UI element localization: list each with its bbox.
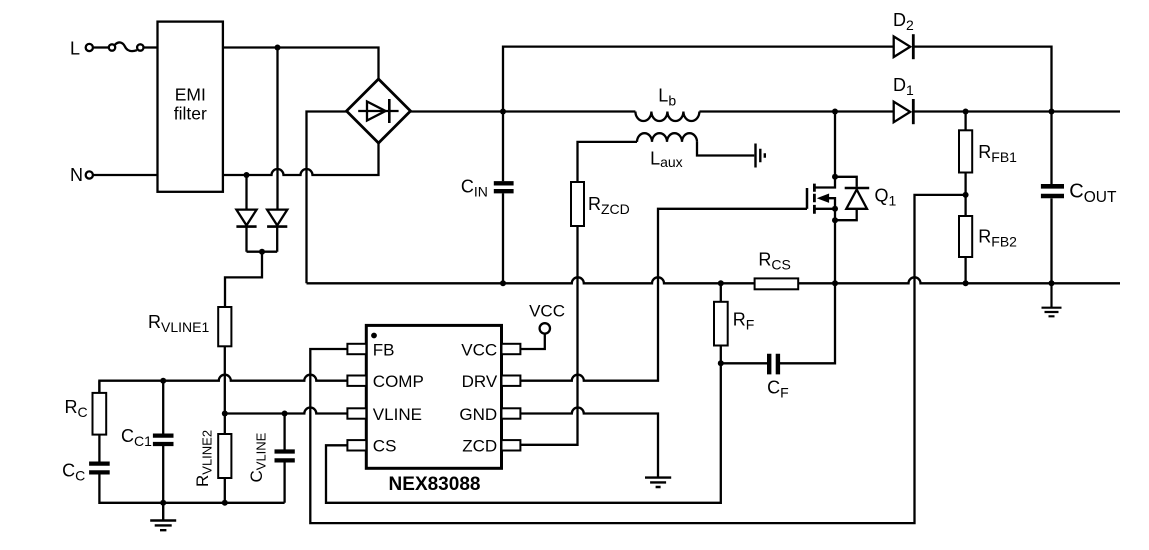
svg-text:L: L [70,39,80,59]
wire CVLINE leads [283,414,285,503]
wire clamp diode cathodes join [247,227,278,252]
diode D2 [894,34,914,59]
svg-text:N: N [70,165,83,185]
node COUT bottom on bus [1049,280,1055,286]
wire Q1 drain to main line [814,112,835,188]
resistor RVLINE2 [218,434,231,478]
svg-text:VCC: VCC [461,340,497,359]
wire L terminal to fuse [94,46,109,48]
node CC1 on COMP line [160,378,166,384]
ground (IC GND pin) [645,478,671,487]
resistor RCS [755,278,799,289]
terminal N circle [86,171,93,178]
wire RFB2 leads [964,195,966,283]
node RFB1 top [963,109,969,115]
resistor RF [714,302,728,346]
node Q1 body diode bottom [832,217,838,223]
wire RF bottom node to CF left plate [721,362,767,364]
capacitor CVLINE [275,452,295,461]
fuse F1 [109,42,144,51]
wire RVLINE1 bottom through COMP line to VLINE node [224,346,226,413]
inductor Lb winding [635,112,699,122]
ground (compensation network) [150,503,176,530]
node RFB2 bottom on bus [963,280,969,286]
node D2 output [1049,109,1055,115]
EMI filter box [158,22,223,192]
wire main boost line bridge to D1 and output [411,110,636,112]
clamp diode DB (right) [267,210,287,227]
wire RC to CC [98,435,100,462]
bridge rectifier [347,79,411,143]
wire RF leads [720,283,722,363]
wire ground bus left part (hops over ZCD and DRV verticals) [307,277,755,283]
Q1 body diode [845,188,870,209]
resistor RVLINE1 [218,307,231,346]
wire ground bus right part (hop over FB vertical) [798,277,1120,283]
wire bridge negative output down to bus [307,112,347,284]
wire CS pin down and right to RF bottom node [326,363,721,503]
node feedback divider [963,192,969,198]
wire Q1 body diode bottom branch [835,209,857,220]
transistor Q1 gate bar [806,188,809,209]
wire CIN top lead [502,112,504,182]
node CIN bottom on bus [500,280,506,286]
IC pin DRV box [502,376,521,386]
svg-text:COMP: COMP [373,372,424,391]
wire fuse to EMI filter [144,46,157,48]
node CS sense on bus [832,280,838,286]
capacitor CC [89,464,110,473]
node Q1 drain on main line [832,109,838,115]
wire D1 cathode to output [913,110,1120,112]
svg-text:ZCD: ZCD [462,437,497,456]
node Q1 source body [832,206,838,212]
resistor RFB2 [959,216,972,257]
wire COUT bottom lead [1050,198,1052,283]
node Q1 body diode top [832,174,838,180]
wire RFB1 leads [964,112,966,195]
node CVLINE on VLINE line [282,411,288,417]
wire D2 cathode to output node [913,47,1051,112]
svg-text:GND: GND [459,405,497,424]
wire Q1 body connection [827,198,835,209]
node clamp diodes output [259,249,265,255]
wire Lb to D1 anode [699,110,893,112]
svg-text:DRV: DRV [462,372,498,391]
wire L-line branch down to right clamp diode [276,48,278,210]
IC pin ZCD box [502,440,521,450]
wire CF right plate up to CS node on bus [780,283,835,363]
node CC1 bottom on ground run [160,500,166,506]
wire Q1 source to bus [814,209,835,283]
wire COUT top lead [1050,112,1052,185]
wire top bypass line CIN node to D2 anode [503,47,894,112]
wire VLINE pin line (hop at x=310.3) [225,408,348,414]
node RVLINE1 RVLINE2 on VLINE line [222,411,228,417]
terminal VCC circle [540,323,550,333]
svg-text:CS: CS [373,437,397,456]
diode D1 [894,99,914,124]
wire GND pin to ground (hop over ZCD vertical) [520,408,658,478]
node L-line branch [275,45,281,51]
wire DRV pin to Q1 gate (hop over ZCD vertical) [520,209,807,381]
wire COMP pin to compensation network (hops at x=224.8 and x=310.3) [99,375,347,393]
transistor Q1 channel segments [813,184,816,214]
svg-text:EMI: EMI [175,85,206,105]
IC pin VLINE box [347,408,366,418]
wire RVLINE2 leads [224,414,226,503]
clamp diode DA (left) [236,210,256,227]
node N-line branch [244,172,250,178]
wire Laux left lead to RZCD top [578,142,638,182]
resistor RFB1 [959,130,972,172]
node RF bottom CF CS [718,360,724,366]
ground (Laux, sideways) [756,144,765,168]
wire node below clamp diodes to RVLINE1 top [225,252,262,307]
wire CC1 bottom lead [162,446,164,503]
resistor RZCD [571,182,584,226]
transistor Q1 body arrow [818,194,828,202]
svg-text:VLINE: VLINE [373,405,422,424]
wire N terminal to EMI filter [94,174,158,176]
wire CIN bottom lead [502,193,504,283]
op-amp/IC U1 NEX83088 body [366,325,501,468]
IC pin COMP box [347,376,366,386]
terminal L circle [86,44,93,51]
IC pin1 marker dot [371,333,377,339]
capacitor CF [769,354,778,375]
wire RC top lead [98,381,100,393]
IC pin VCC box [502,344,521,354]
svg-text:VCC: VCC [529,302,565,321]
svg-text:NEX83088: NEX83088 [389,474,481,495]
wire CC bottom to ground run [99,474,284,502]
node CIN top [500,109,506,115]
wire EMI output L to bridge top [223,48,379,80]
wire EMI output N to bridge bottom (hops at x=277.5 and x=306.5) [223,143,379,175]
capacitor CIN [494,183,514,191]
wire N-line branch down to left clamp diode [245,175,247,210]
wire RZCD bottom to ZCD pin [520,226,577,445]
resistor RC [93,393,107,435]
wire CC1 top lead from COMP line [162,381,164,434]
IC pin CS box [347,440,366,450]
wire Laux right lead to sideways ground [697,142,754,156]
ground (COUT) [1042,283,1062,316]
svg-text:FB: FB [373,340,395,359]
node RF top on bus [718,280,724,286]
IC pin FB box [347,344,366,354]
wire VCC pin to VCC terminal [520,334,544,349]
inductor Laux winding [637,133,697,142]
IC pin GND box [502,408,521,418]
wire Q1 body diode top branch [835,177,857,187]
wire FB pin to feedback divider via bottom run [310,195,965,523]
node RVLINE2 bottom on ground run [222,500,228,506]
capacitor COUT [1041,186,1064,196]
capacitor CC1 [153,436,174,444]
svg-text:filter: filter [174,104,207,124]
